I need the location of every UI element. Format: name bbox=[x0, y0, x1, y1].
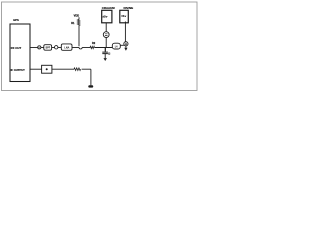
box DRAIN bias B1 bbox=[102, 10, 112, 22]
resistor R1 bbox=[71, 20, 80, 26]
label DRAIN bbox=[102, 6, 115, 10]
box GATE bias B2 bbox=[120, 10, 129, 22]
wire bbox=[105, 38, 107, 48]
oscillator G1 bbox=[124, 42, 128, 46]
wire bbox=[58, 47, 61, 49]
resistor R3 bbox=[74, 68, 81, 71]
ground bbox=[124, 48, 127, 51]
filter FL1 bbox=[44, 45, 52, 51]
wire bbox=[82, 47, 90, 49]
port label RF OUT bbox=[11, 46, 22, 50]
wire bbox=[52, 68, 74, 70]
circulator A1 bbox=[38, 46, 41, 49]
svg-text:VDD: VDD bbox=[74, 14, 80, 18]
svg-text:R2: R2 bbox=[92, 41, 96, 45]
resistor R2 bbox=[90, 41, 96, 49]
svg-text:CRAAUM: CRAAUM bbox=[102, 6, 115, 10]
port label IF OUTPUT bbox=[11, 68, 26, 72]
svg-text:LNA: LNA bbox=[64, 46, 69, 49]
svg-text:DIV/NE: DIV/NE bbox=[124, 6, 134, 10]
wire bbox=[120, 44, 124, 46]
svg-text:R1: R1 bbox=[71, 21, 75, 25]
node crossover bump bbox=[79, 48, 82, 50]
wire bbox=[41, 47, 44, 49]
supply VDD bbox=[74, 14, 80, 20]
capacitor C1 bbox=[102, 52, 110, 54]
wire bbox=[105, 23, 107, 32]
border frame bbox=[2, 2, 198, 91]
wire bbox=[82, 69, 91, 85]
wire bbox=[104, 54, 106, 58]
node junction bbox=[104, 48, 106, 52]
ground bbox=[104, 58, 107, 61]
svg-text:GPS: GPS bbox=[13, 18, 19, 22]
wire bbox=[52, 47, 55, 49]
wire bbox=[78, 26, 80, 47]
label GPS bbox=[13, 18, 19, 22]
wire bbox=[30, 47, 38, 49]
wire bbox=[72, 47, 79, 49]
wire bbox=[95, 47, 113, 49]
svg-text:IF OUTPUT: IF OUTPUT bbox=[11, 68, 26, 72]
ground bbox=[88, 85, 93, 87]
attenuator U3 bbox=[42, 65, 52, 73]
GPS receiver block U1 bbox=[10, 24, 30, 82]
label GATE bbox=[124, 6, 134, 10]
wire bbox=[30, 68, 42, 70]
svg-text:±2v: ±2v bbox=[102, 14, 107, 18]
choke L1 bbox=[103, 32, 109, 38]
svg-text:RF OUT: RF OUT bbox=[11, 46, 22, 50]
amplifier U2 bbox=[61, 44, 72, 50]
wire bbox=[125, 46, 127, 48]
circulator A2 bbox=[55, 46, 58, 49]
svg-text:L4: L4 bbox=[115, 45, 118, 48]
svg-text:±1v: ±1v bbox=[121, 14, 126, 18]
svg-text:BPF: BPF bbox=[46, 48, 51, 50]
wire bbox=[124, 22, 126, 42]
filter FL2 bbox=[112, 43, 120, 49]
